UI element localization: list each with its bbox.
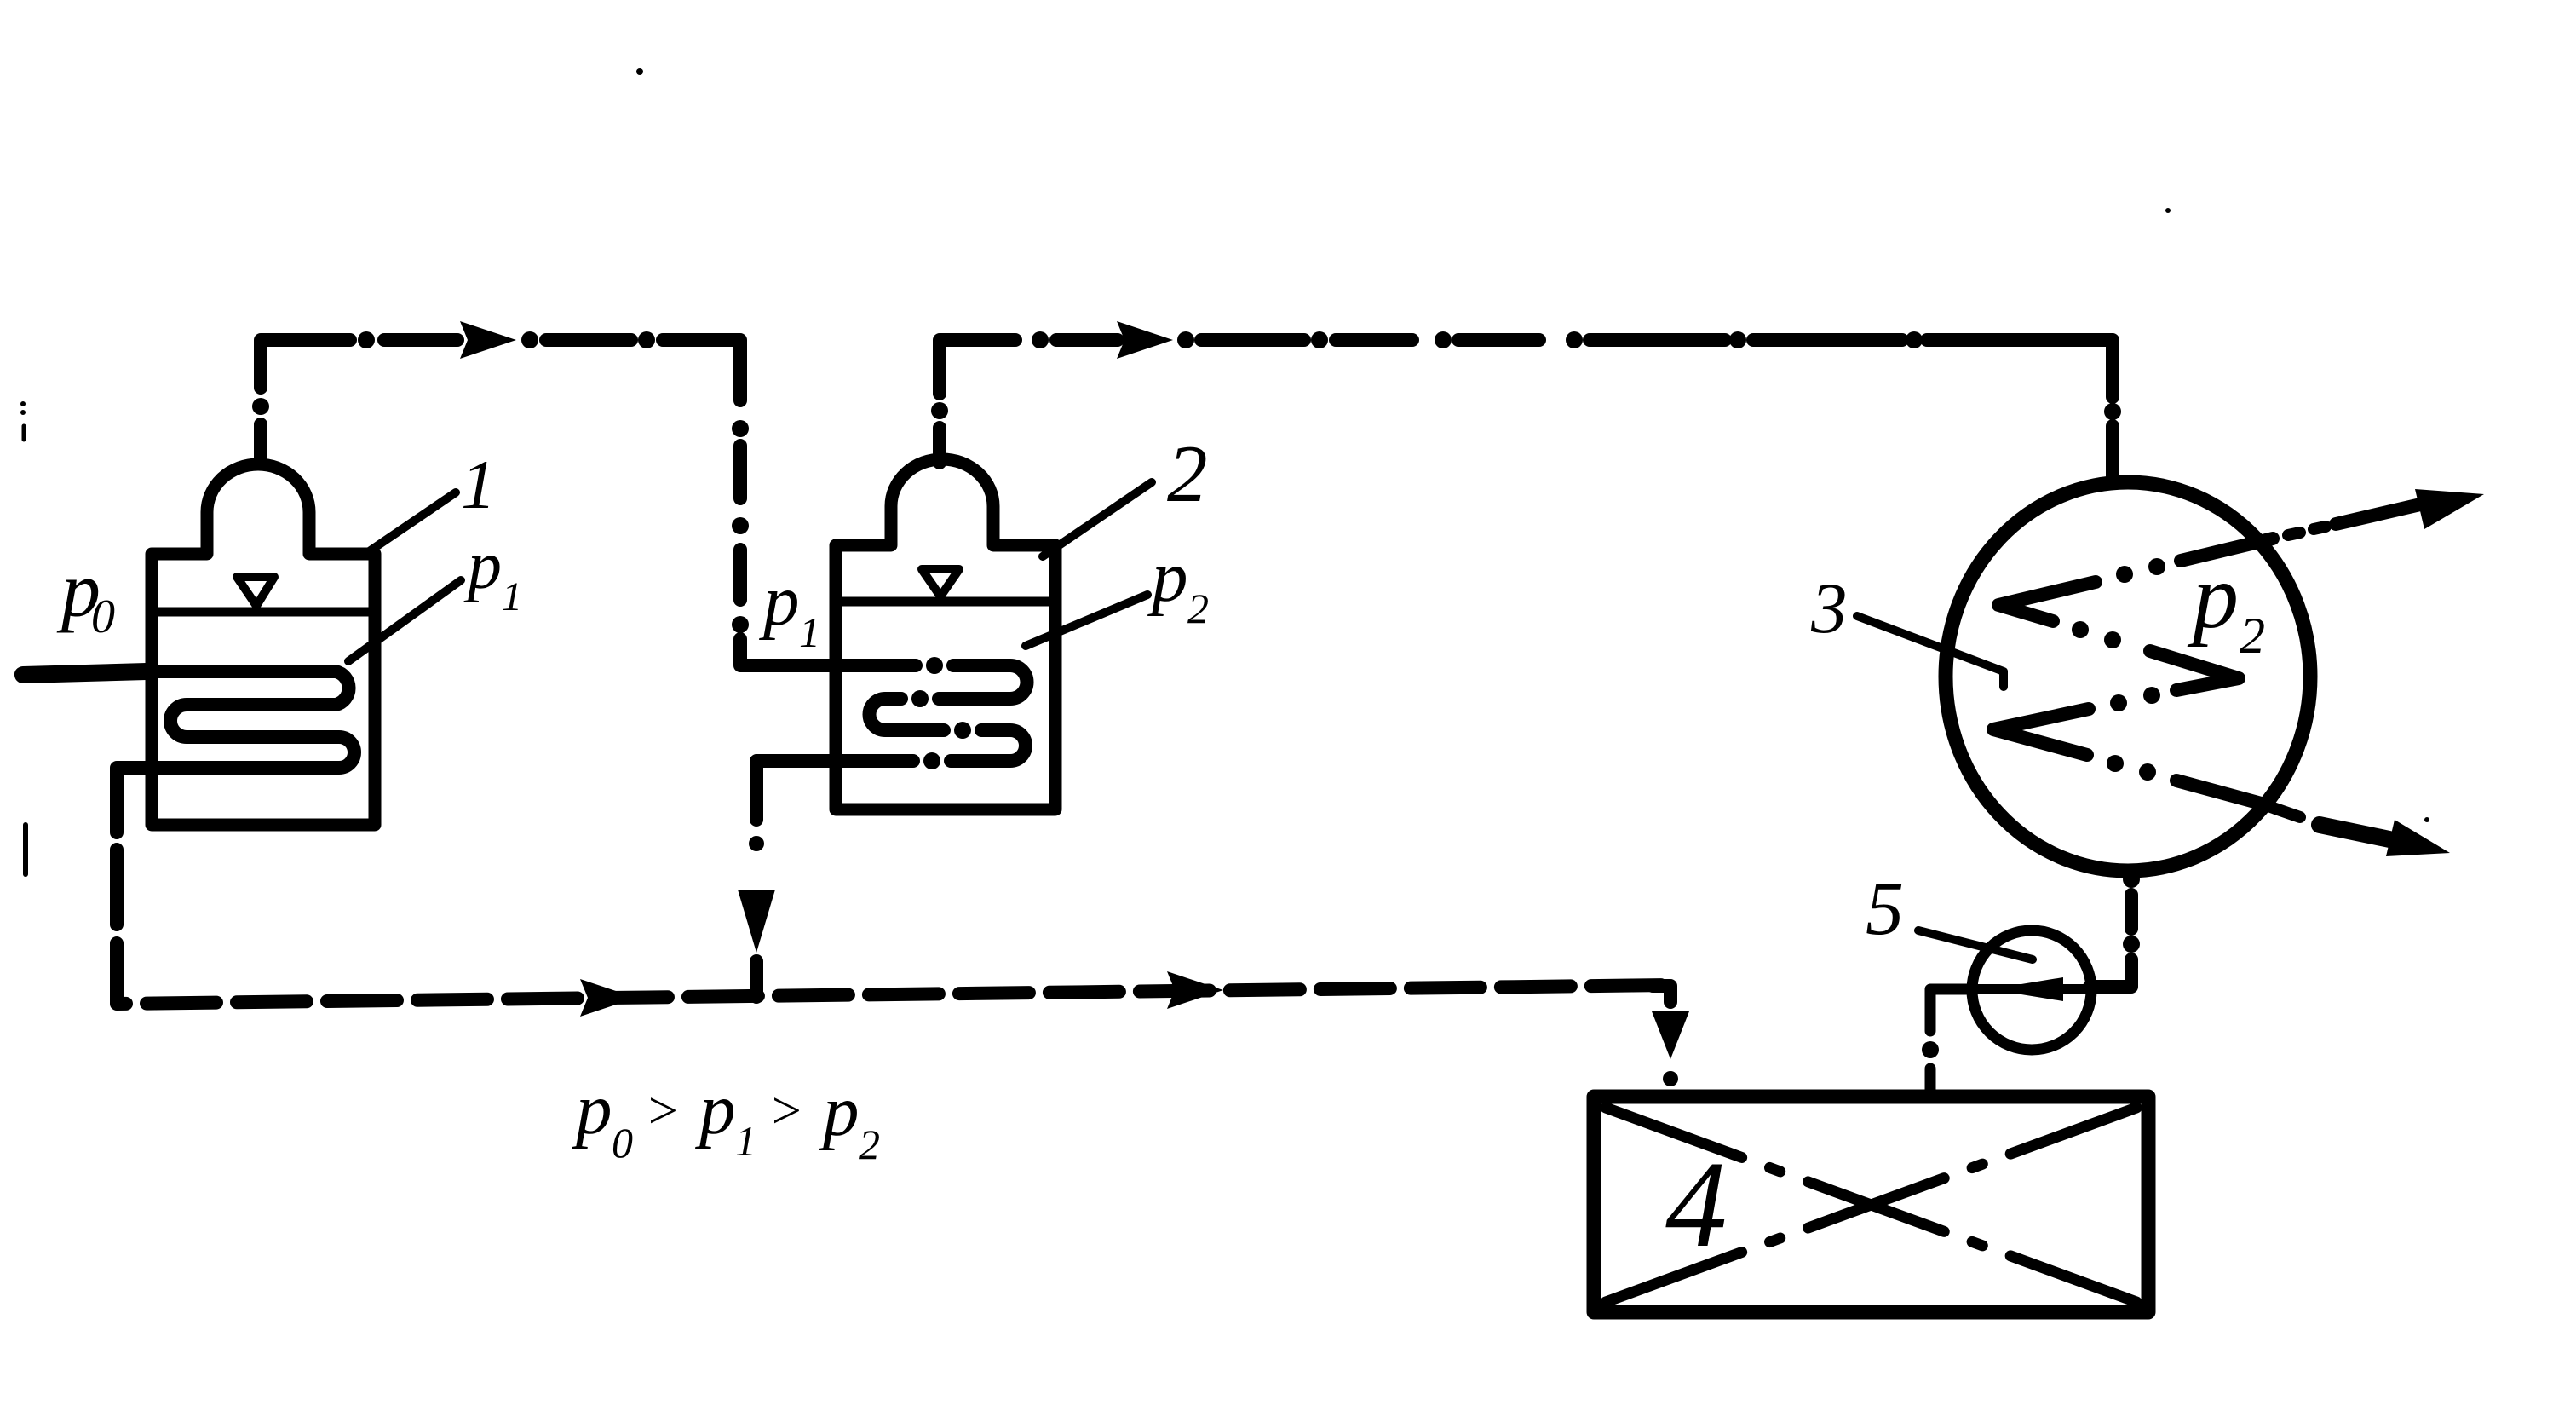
- wire: vertical dash-dot drop (P1 liquid) from header to vessel 2 coil: [733, 446, 747, 664]
- wire: dash-dot vapor header from vessel 1 to vessel 2 (y=399): [384, 340, 740, 400]
- compressor 3: internal dash-dot zigzag: [1993, 539, 2273, 804]
- speck: left margin marks: [20, 401, 26, 406]
- arrow: flow arrow on header line B: [1117, 321, 1173, 359]
- svg-text:p: p: [463, 528, 502, 603]
- svg-text:4: 4: [1665, 1137, 1728, 1273]
- vessel 1: feed pipe P0 (thicker outside run): [23, 671, 147, 675]
- wire: vapor pipe from evaporator 1 dome up to header (solid elbow): [261, 340, 350, 463]
- arrow: flow arrow on dashed drain line (first): [580, 979, 636, 1017]
- svg-text:1: 1: [799, 608, 820, 656]
- svg-text:0: 0: [612, 1119, 633, 1166]
- svg-text:2: 2: [859, 1120, 880, 1168]
- svg-text:p: p: [695, 1069, 736, 1149]
- wire: elbow down into condenser 4 left inlet with arrow: [1653, 986, 1670, 1002]
- vessel 1: liquid level line: [152, 608, 375, 617]
- wire: vapor pipe from vessel 2 dome up to header B: [940, 340, 1015, 463]
- vessel 1: serpentine coil (solid): [21, 671, 354, 832]
- wire: pump 5 outlet to condenser 4 (elbow down, dash-dot): [1930, 989, 1974, 1031]
- svg-text:p: p: [2187, 546, 2239, 648]
- svg-text:p: p: [819, 1071, 860, 1151]
- wire: pipe from compressor 3 bottom down to pump 5 (dash-dot): [2090, 895, 2131, 987]
- arrow: flow arrow on header line A: [460, 321, 516, 359]
- vessel 1: level indicator triangle: [237, 577, 274, 606]
- wire: dashed liquid drain from vessel 1 coil, down then right to condenser 4: [117, 850, 1670, 1004]
- svg-text:>: >: [645, 1082, 681, 1140]
- svg-text:1: 1: [502, 574, 522, 619]
- svg-text:5: 5: [1866, 867, 1904, 951]
- vessel 2: intermediate vessel tank body with dome: [836, 459, 1055, 809]
- condenser 4: dash-dot X diagonals: [1606, 1108, 2136, 1302]
- arrow: cooling water inlet line (lower right, pointing SE): [2258, 803, 2300, 817]
- vessel 2: level indicator triangle: [922, 569, 959, 596]
- svg-text:2: 2: [1187, 585, 1209, 632]
- svg-text:2: 2: [2240, 608, 2265, 664]
- svg-text:>: >: [768, 1082, 804, 1140]
- svg-text:p: p: [1147, 537, 1188, 617]
- arrow: cooling water outlet arrow (upper right, pointing NE): [2288, 527, 2326, 535]
- vessel 2: liquid level line: [836, 597, 1055, 607]
- svg-text:p: p: [759, 561, 800, 641]
- svg-text:1: 1: [735, 1117, 756, 1165]
- svg-text:p: p: [572, 1069, 612, 1149]
- svg-text:0: 0: [91, 590, 115, 643]
- svg-text:1: 1: [461, 446, 496, 523]
- vessel 2: serpentine coil (dash-dot) fed by P1 drop: [740, 639, 1027, 820]
- arrow: flow arrow on dashed drain line (second): [1167, 971, 1223, 1009]
- condenser 4: rectangle body: [1594, 1097, 2148, 1312]
- svg-text:3: 3: [1810, 568, 1848, 648]
- wire: dash-dot vapor header from vessel 2 to compressor 3 (y=399): [1056, 340, 2113, 483]
- pump 5: circle with flow arrow: [1972, 930, 2091, 1050]
- speck: dot upper right: [2165, 208, 2171, 213]
- speck: scanner dot top centre: [636, 68, 643, 75]
- svg-text:2: 2: [1167, 429, 1208, 519]
- speck: dot right of circle 3: [2424, 817, 2429, 822]
- compressor 3: circle body: [1946, 482, 2310, 871]
- vessel 1: evaporator tank body with dome: [152, 464, 375, 825]
- wire: vessel 2 drain down to junction with dashed line (arrow down): [749, 836, 764, 851]
